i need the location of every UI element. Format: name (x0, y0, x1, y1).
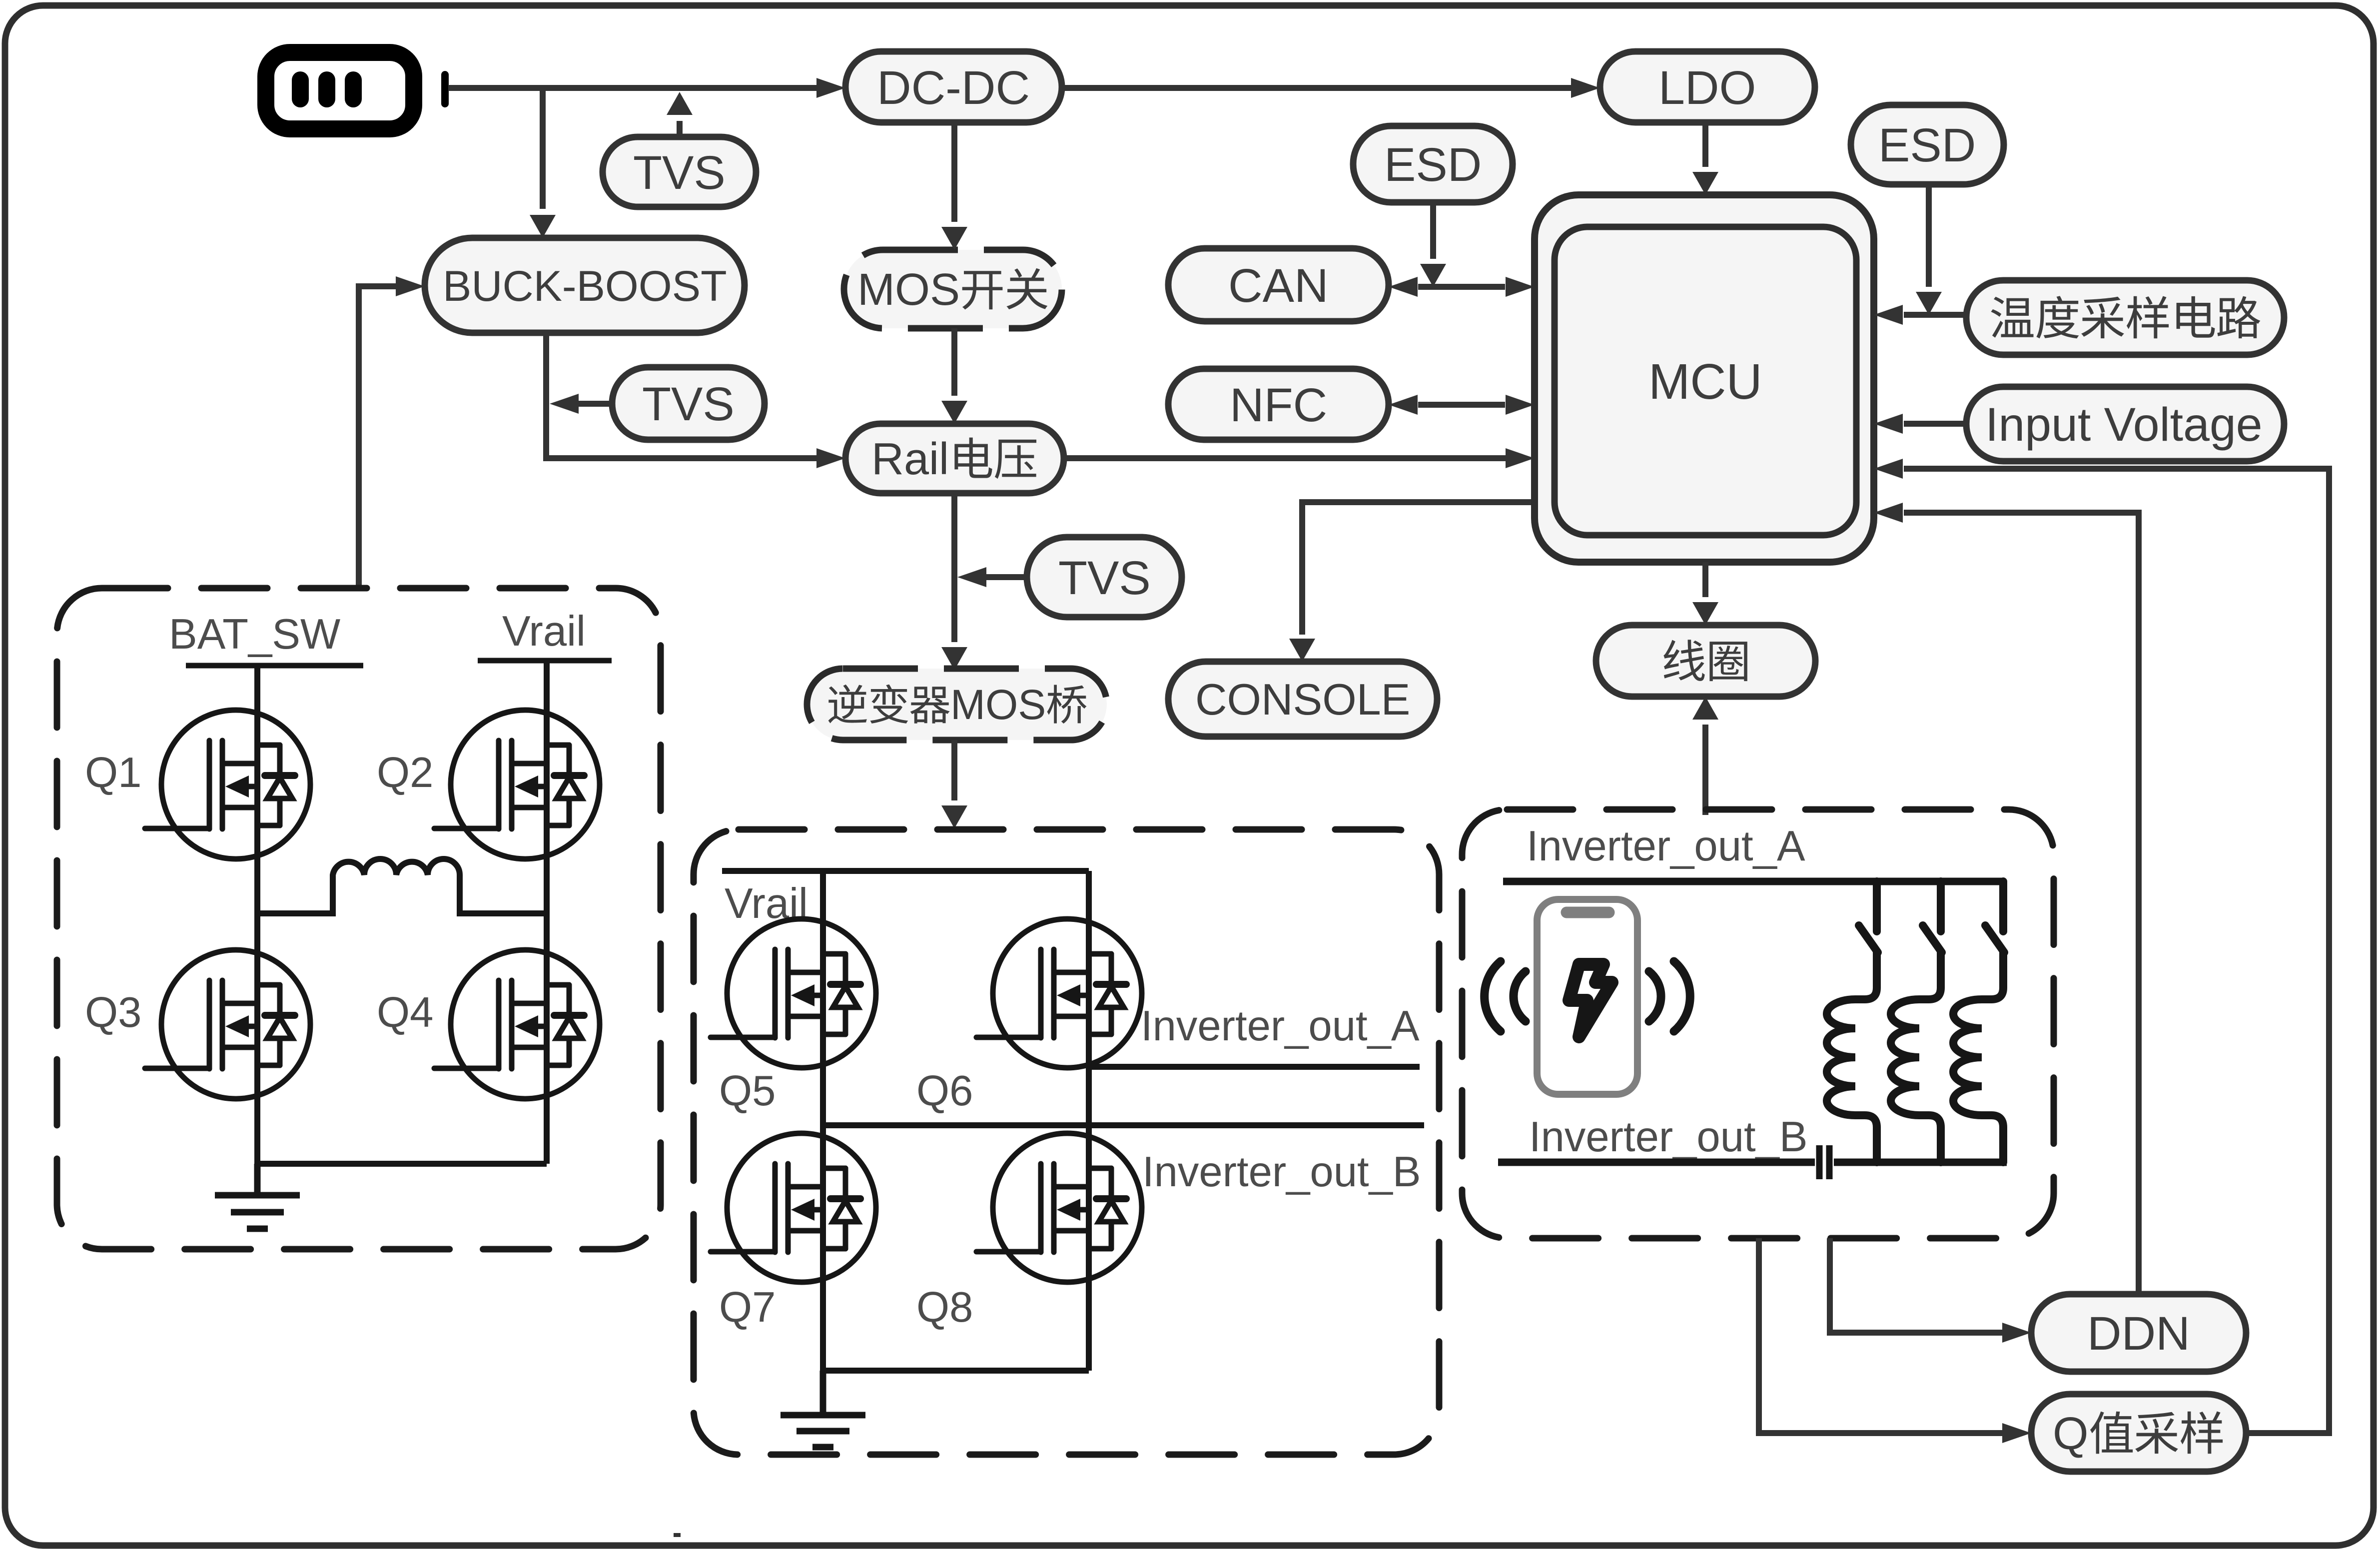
transistor Q6 (976, 919, 1142, 1068)
transistor Q7 (711, 1133, 876, 1282)
wire pad bus A (1503, 878, 2003, 885)
wire pad to Q-sample (1759, 1238, 2031, 1443)
block DC-DC (845, 51, 1062, 122)
block Q value sampling (2031, 1394, 2246, 1472)
wire DC-DC to LDO (1062, 78, 1600, 98)
svg-text:MCU: MCU (1648, 354, 1762, 410)
svg-text:TVS: TVS (633, 146, 726, 199)
wire CAN to MCU bidirectional (1389, 277, 1535, 297)
wire coil feed up from pad box (1692, 697, 1718, 815)
svg-text:Inverter_out_A: Inverter_out_A (1141, 1002, 1420, 1050)
wire Rail voltage down to inverter bridge (941, 493, 967, 670)
label Inverter_out_B (pad) (1529, 1113, 1808, 1161)
label Q7 (719, 1284, 776, 1331)
block TVS3 (1027, 537, 1182, 617)
svg-text:Q3: Q3 (85, 989, 141, 1036)
wire Input Voltage to MCU (1874, 414, 1966, 434)
coil L4 (1953, 952, 2003, 1162)
svg-text:Q2: Q2 (377, 749, 433, 796)
svg-text:DDN: DDN (2087, 1307, 2190, 1360)
inductor L1 (257, 859, 547, 913)
block coil (1596, 625, 1815, 697)
block MOS switch (844, 250, 1062, 328)
wire DDN feedback to MCU (1874, 503, 2139, 1294)
dashed box inverter H-bridge (694, 829, 1439, 1455)
node Vrail (buck-boost) (478, 608, 612, 661)
wire Rail voltage to MCU (1064, 448, 1535, 468)
wire TVS1 up to battery rail (667, 92, 693, 137)
block Rail voltage (845, 424, 1064, 493)
wire pad to DDN (1830, 1238, 2031, 1343)
phone icon (1537, 899, 1637, 1094)
label Q1 (85, 749, 141, 796)
ground (bridge) (781, 1371, 865, 1447)
svg-text:BAT_SW: BAT_SW (169, 611, 340, 658)
MCU U1 (1535, 195, 1874, 562)
block TVS1 (603, 137, 756, 207)
switch SW2 (1923, 881, 1942, 952)
svg-text:Inverter_out_B: Inverter_out_B (1529, 1113, 1808, 1161)
wire NFC to MCU bidirectional (1389, 395, 1535, 415)
switch SW1 (1859, 881, 1878, 952)
dashed box buck-boost power stage (57, 588, 661, 1249)
svg-text:MOS: MOS (857, 265, 960, 315)
wire pad bus B left (1498, 1159, 1815, 1166)
wire BUCK-BOOST to Rail voltage (546, 333, 845, 468)
svg-text:Rail: Rail (871, 434, 949, 484)
svg-text:Q5: Q5 (719, 1067, 776, 1115)
dashed box charging pad (1462, 809, 2054, 1238)
wire Q2-Q4 leg (544, 661, 550, 1164)
coil L3 (1891, 952, 1941, 1162)
svg-text:ESD: ESD (1384, 138, 1482, 191)
block CONSOLE (1168, 662, 1437, 737)
block DDN (2031, 1294, 2246, 1372)
block Input Voltage (1966, 387, 2284, 461)
transistor Q8 (976, 1133, 1142, 1282)
transistor Q2 (434, 710, 600, 859)
svg-text:NFC: NFC (1230, 379, 1327, 432)
label Q4 (377, 989, 433, 1036)
battery icon BAT (266, 52, 449, 129)
transistor Q3 (145, 950, 310, 1099)
wire inverter bridge down to H-bridge box (941, 740, 967, 828)
wire Vrail top bus (722, 868, 1089, 874)
block inverter MOS bridge (807, 669, 1107, 740)
wire temperature sampling to MCU (1874, 305, 1966, 325)
coil L2 (1827, 952, 1877, 1162)
wire bridge bottom bus (823, 1368, 1089, 1374)
svg-text:ESD: ESD (1878, 119, 1976, 172)
svg-text:Inverter_out_B: Inverter_out_B (1142, 1148, 1421, 1196)
wire ESD1 down to CAN bus (1420, 202, 1446, 287)
node Vrail (bridge) (725, 880, 808, 927)
wire Q1-Q3 leg (254, 666, 260, 1164)
capacitor C1 (1819, 1145, 1829, 1179)
wire MCU to CONSOLE (1289, 502, 1535, 662)
label Q3 (85, 989, 141, 1036)
svg-text:DC-DC: DC-DC (877, 61, 1030, 114)
svg-text:Q8: Q8 (916, 1284, 973, 1331)
block CAN (1168, 248, 1389, 321)
block ESD1 (1353, 126, 1513, 202)
label Inverter_out_A (bridge) (1141, 1002, 1420, 1050)
wire ESD2 down to temperature bus (1916, 184, 1942, 315)
lightning bolt (1569, 964, 1612, 1037)
wire MOS switch down to Rail voltage (941, 328, 967, 424)
wire Inverter_out_B from bridge (823, 1122, 1424, 1128)
svg-text:LDO: LDO (1658, 61, 1756, 114)
wire Q6-Q8 leg (1086, 871, 1092, 1371)
svg-text:Q7: Q7 (719, 1284, 776, 1331)
label Inverter_out_A (pad) (1527, 822, 1805, 870)
label Q8 (916, 1284, 973, 1331)
ground (buck stage) (215, 1164, 300, 1229)
wire TVS2 left to rail (550, 394, 612, 414)
svg-text:Q4: Q4 (377, 989, 433, 1036)
svg-text:BUCK-BOOST: BUCK-BOOST (443, 262, 727, 310)
svg-text:TVS: TVS (642, 378, 735, 431)
svg-text:Q1: Q1 (85, 749, 141, 796)
wire LDO down to MCU (1692, 122, 1718, 195)
svg-text:Vrail: Vrail (502, 608, 586, 655)
wire bottom bus buck stage (257, 1161, 547, 1167)
wire MCU down to coil (1692, 562, 1718, 625)
block LDO (1600, 51, 1815, 122)
label Inverter_out_B (bridge) (1142, 1148, 1421, 1196)
block temperature sampling circuit (1966, 280, 2284, 355)
svg-text:Q: Q (2053, 1408, 2089, 1459)
wire battery to DC-DC (448, 78, 845, 98)
wire branch down to BUCK-BOOST (530, 88, 556, 238)
transistor Q4 (434, 950, 600, 1099)
svg-text:CONSOLE: CONSOLE (1195, 675, 1410, 724)
transistor Q5 (711, 919, 876, 1068)
wire pad bus B right (1834, 1159, 2007, 1166)
wire Inverter_out_A from bridge (1089, 1064, 1420, 1070)
switch SW3 (1985, 881, 2004, 952)
stray dash mark (674, 1533, 681, 1537)
svg-text:TVS: TVS (1058, 552, 1151, 605)
label Q2 (377, 749, 433, 796)
wire BAT_SW feed up to BUCK-BOOST (359, 276, 425, 590)
svg-text:Inverter_out_A: Inverter_out_A (1527, 822, 1805, 870)
block NFC (1168, 369, 1389, 440)
svg-text:Input Voltage: Input Voltage (1985, 398, 2263, 451)
wire Q-sample feedback to MCU (1874, 459, 2329, 1433)
label Q5 (719, 1067, 776, 1115)
wire TVS3 left to rail drop (957, 567, 1027, 587)
wire DC-DC down to MOS switch (941, 122, 967, 250)
signal arcs right (1649, 961, 1690, 1031)
svg-text:MOS: MOS (950, 681, 1046, 728)
block ESD2 (1851, 105, 2004, 184)
block TVS2 (612, 367, 765, 440)
svg-text:Q6: Q6 (916, 1067, 973, 1115)
block BUCK-BOOST (425, 238, 745, 333)
node BAT_SW (169, 611, 363, 666)
transistor Q1 (145, 710, 310, 859)
svg-text:CAN: CAN (1228, 259, 1329, 312)
signal arcs left (1485, 961, 1526, 1031)
wire Q5-Q7 leg (820, 871, 826, 1371)
label Q6 (916, 1067, 973, 1115)
